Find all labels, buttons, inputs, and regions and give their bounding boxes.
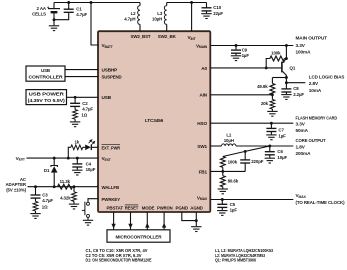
svg-text:10µH: 10µH (152, 16, 162, 21)
node C2 junction (74, 96, 77, 99)
capacitor C6 value label (277, 149, 287, 160)
pushbutton switch S1 (82, 202, 90, 218)
capacitor C2 value label (81, 101, 93, 117)
inductor L2 value label (124, 11, 136, 22)
node D1 top junction (53, 157, 56, 160)
IC U1 LTC3456 body (98, 31, 210, 212)
svg-text:(4.35V TO 5.5V): (4.35V TO 5.5V) (28, 98, 66, 103)
capacitor 220pF (240, 151, 250, 171)
wire SUSPEND (65, 76, 99, 78)
label AC adapter (5, 177, 26, 193)
node Q1 emitter junction on VMAIN (285, 44, 288, 47)
svg-text:USBHP: USBHP (102, 68, 118, 73)
wire battery top rail (54, 2, 140, 4)
node 220pF top junction (244, 150, 247, 153)
svg-text:Q1: Q1 (290, 66, 296, 71)
svg-text:HSO: HSO (197, 121, 207, 126)
svg-text:C10: C10 (213, 5, 221, 10)
wire USB (67, 96, 99, 98)
resistor 4.32k (72, 187, 77, 204)
ground below 20k (267, 111, 277, 116)
svg-text:LCD LOGIC BIAS: LCD LOGIC BIAS (309, 74, 345, 79)
svg-text:L1: L1 (226, 132, 232, 137)
capacitor C1 value label (76, 7, 87, 17)
ground PGND AGND (191, 221, 201, 232)
wire EXT_PWR branch (68, 147, 71, 158)
svg-text:1µF: 1µF (242, 53, 250, 58)
resistor 100k base pullup (266, 56, 286, 68)
capacitor C4 value label (86, 161, 96, 172)
resistor 1ohm below C3 (33, 198, 38, 213)
svg-text:VEXT: VEXT (16, 156, 26, 162)
capacitor C10 22uF (201, 3, 211, 19)
node FB1 junction (221, 170, 224, 173)
svg-text:4.7µF: 4.7µF (42, 198, 53, 203)
capacitor C5 1uF (217, 200, 227, 216)
svg-text:USB: USB (41, 68, 50, 73)
wire collector to divider (272, 77, 286, 79)
svg-text:100k: 100k (228, 160, 238, 165)
svg-text:1k: 1k (74, 139, 79, 144)
resistor R 1ohm below C2 (73, 106, 78, 121)
svg-text:22µF: 22µF (213, 11, 223, 16)
svg-text:VMAX: VMAX (197, 195, 208, 201)
wire VEXT input (27, 157, 99, 159)
svg-text:VBATT: VBATT (102, 43, 114, 49)
svg-text:1Ω: 1Ω (81, 112, 87, 117)
node EXT_PWR branch junction (67, 157, 70, 160)
resistor 1k (71, 145, 83, 150)
wire PBSTAT to microcontroller (111, 212, 115, 230)
node PGND AGND junction (195, 219, 198, 222)
node 4.32k junction (73, 185, 76, 188)
svg-text:49.9k: 49.9k (257, 84, 268, 89)
wire USBHP (65, 69, 99, 71)
capacitor C8 2.2uF (281, 83, 291, 100)
svg-text:C1: C1 (76, 7, 82, 12)
svg-text:VEXT: VEXT (102, 156, 112, 162)
svg-text:C4: C4 (86, 161, 92, 166)
label main output (296, 35, 328, 54)
svg-text:PWRON: PWRON (157, 205, 173, 210)
svg-text:A0: A0 (201, 66, 207, 71)
svg-text:WALLFB: WALLFB (102, 185, 120, 190)
pin EXT_PWR label with overline (102, 145, 121, 151)
battery BT1 2 AA cells (47, 3, 60, 20)
svg-text:PWRKEY: PWRKEY (102, 197, 121, 202)
svg-text:10µF: 10µF (277, 155, 287, 160)
svg-text:1µF: 1µF (230, 208, 238, 213)
svg-text:3.3V: 3.3V (296, 43, 306, 48)
node C9 junction (235, 44, 238, 47)
wire LCD bias output (286, 78, 305, 83)
svg-text:+: + (47, 5, 50, 10)
node C6 junction (268, 145, 271, 148)
ground below C2 chain (70, 122, 80, 127)
svg-text:10µF: 10µF (86, 167, 96, 172)
pin RESET label with overline (125, 205, 139, 210)
node Q1 collector junction (285, 76, 288, 79)
svg-text:2.2µF: 2.2µF (293, 92, 304, 97)
svg-text:C3: C3 (42, 192, 48, 197)
svg-text:USB: USB (102, 95, 112, 100)
svg-text:VMAIN: VMAIN (196, 43, 208, 49)
capacitor C4 10uF (72, 158, 82, 175)
svg-text:SUSPEND: SUSPEND (102, 75, 123, 80)
capacitor C3 4.7uF (31, 187, 41, 198)
svg-text:CELLS: CELLS (32, 11, 46, 16)
svg-text:ADAPTER: ADAPTER (5, 182, 26, 187)
LED D2 (83, 145, 99, 151)
node C5 junction (221, 198, 224, 201)
node C3 junction (34, 185, 37, 188)
svg-text:CONTROLLER: CONTROLLER (29, 75, 64, 80)
diode D1 schottky (51, 158, 58, 187)
node VINT junction (190, 1, 193, 4)
resistor 49.9k (270, 78, 275, 95)
inductor L3 10uH (164, 3, 166, 32)
svg-text:C5: C5 (230, 202, 236, 207)
wire VINT pin drop (191, 3, 193, 32)
svg-text:C8: C8 (293, 86, 299, 91)
wire PGND (182, 212, 197, 221)
label VMAX to real-time clock (296, 193, 345, 205)
resistor 80.6k (220, 171, 225, 188)
svg-text:100mA: 100mA (296, 50, 312, 55)
capacitor C7 1uF (266, 123, 276, 140)
svg-text:D1: ON SEMICONDUCTOR MBRM120E: D1: ON SEMICONDUCTOR MBRM120E (86, 258, 152, 263)
note component table left column (86, 248, 152, 263)
svg-text:CORE OUTPUT: CORE OUTPUT (296, 138, 326, 143)
node C1 top junction (67, 1, 70, 4)
node A0 100k junction (265, 66, 268, 69)
note component table right column (215, 248, 274, 263)
wire PWRON from microcontroller (162, 212, 166, 230)
ground battery (49, 20, 59, 31)
svg-text:LTC3456: LTC3456 (145, 118, 164, 123)
svg-text:4.7µH: 4.7µH (124, 16, 135, 21)
svg-text:10mA: 10mA (309, 88, 322, 93)
node 100k right junction (285, 57, 288, 60)
capacitor C8 value label (293, 86, 304, 97)
svg-text:SW1: SW1 (197, 144, 207, 149)
svg-text:11.3k: 11.3k (60, 179, 71, 184)
svg-text:4.7µF: 4.7µF (82, 107, 93, 112)
wire SW1 (210, 145, 221, 147)
svg-text:4.32k: 4.32k (60, 196, 71, 201)
svg-text:L2: L2 (131, 11, 137, 16)
capacitor C1 4.7uF (54, 3, 74, 20)
box USB power (26, 90, 67, 105)
svg-text:MICROCONTROLLER: MICROCONTROLLER (116, 234, 163, 239)
box microcontroller (107, 230, 170, 242)
capacitor C6 10uF (265, 146, 275, 163)
svg-text:220pF: 220pF (251, 159, 264, 164)
svg-text:3.3V: 3.3V (296, 122, 306, 127)
svg-text:C6: C6 (277, 149, 283, 154)
svg-text:EXT_PWR: EXT_PWR (102, 145, 121, 150)
node C8 junction (285, 81, 288, 84)
wire VINT rail (167, 2, 207, 4)
wire feedback diagonal (223, 146, 270, 157)
ground below 4.32k (69, 204, 79, 209)
resistor 20k (270, 95, 275, 111)
box USB controller (26, 66, 65, 81)
inductor L1 10uH (222, 144, 294, 146)
svg-text:FLASH MEMORY CARD: FLASH MEMORY CARD (296, 115, 338, 120)
svg-text:50mA: 50mA (296, 128, 309, 133)
label core output (296, 138, 326, 156)
svg-text:2.8V: 2.8V (309, 81, 319, 86)
svg-text:(TO REAL-TIME CLOCK): (TO REAL-TIME CLOCK) (296, 200, 345, 205)
svg-text:SW2_BST: SW2_BST (131, 34, 151, 39)
node VBATT branch junction (90, 1, 93, 4)
inductor L3 value label (152, 11, 163, 22)
node C7 junction (270, 122, 273, 125)
ground below pushbutton (83, 217, 93, 225)
LED emission arrows (89, 140, 95, 145)
wire HSO output (210, 122, 293, 124)
svg-text:80.6k: 80.6k (228, 179, 239, 184)
ground below 80.6k (218, 189, 228, 194)
svg-text:C2: C2 (82, 101, 88, 106)
battery label 2 AA CELLS (32, 6, 47, 17)
svg-text:100k: 100k (271, 50, 281, 55)
capacitor C3 value label (42, 192, 54, 209)
capacitor C2 4.7uF (70, 97, 80, 106)
svg-text:MAIN OUTPUT: MAIN OUTPUT (296, 35, 328, 40)
box USB controller label (29, 68, 64, 80)
wire FB1 (210, 170, 245, 172)
svg-text:VMAX: VMAX (296, 193, 307, 199)
capacitor C10 value label (213, 5, 223, 16)
resistor 11.3k (58, 184, 73, 189)
svg-text:FB1: FB1 (199, 169, 208, 174)
svg-text:VINT: VINT (188, 35, 197, 41)
svg-text:D1: D1 (44, 168, 50, 173)
wire AGND (195, 212, 197, 221)
svg-text:USB POWER: USB POWER (29, 92, 65, 97)
svg-text:2 AA: 2 AA (37, 6, 47, 11)
node D1 bottom junction (53, 185, 56, 188)
svg-text:AIN: AIN (199, 93, 207, 98)
svg-text:Q1: PHILIPS MMBT3906: Q1: PHILIPS MMBT3906 (215, 258, 257, 263)
svg-text:20k: 20k (261, 101, 269, 106)
node C4 junction (76, 157, 79, 160)
box USB power label (28, 92, 66, 103)
wire RESET to microcontroller (128, 212, 132, 230)
svg-text:10µH: 10µH (224, 138, 234, 143)
transistor Q1 PNP (282, 59, 287, 78)
svg-text:PBSTAT: PBSTAT (107, 205, 124, 210)
svg-text:PGND: PGND (176, 205, 189, 210)
svg-text:4.7µF: 4.7µF (76, 12, 87, 17)
node battery minus junction (53, 18, 56, 21)
svg-text:1.8V: 1.8V (296, 144, 306, 149)
label flash memory card (296, 115, 338, 133)
inductor L1 value label (224, 132, 234, 143)
svg-text:SW2_BK: SW2_BK (158, 34, 177, 39)
wire Q1 emitter stub (285, 46, 287, 59)
wire AC adapter input (28, 186, 99, 188)
svg-text:RESET: RESET (125, 205, 139, 210)
wire to VBATT pin (91, 3, 99, 46)
svg-text:200mA: 200mA (296, 151, 312, 156)
capacitor C9 1uF (231, 46, 241, 61)
svg-text:1Ω: 1Ω (42, 204, 48, 209)
svg-text:MODE: MODE (142, 205, 155, 210)
wire MODE from microcontroller (145, 212, 149, 230)
capacitor C5 value label (230, 202, 238, 213)
svg-text:L3: L3 (157, 11, 163, 16)
capacitor C9 value label (242, 48, 250, 59)
svg-text:AGND: AGND (190, 205, 203, 210)
wire VMAIN output (210, 45, 293, 47)
inductor L2 4.7uH (138, 3, 140, 32)
wire PWRKEY (88, 199, 99, 203)
label LCD logic bias (309, 74, 345, 92)
node AIN divider junction (271, 93, 274, 96)
svg-text:1µF: 1µF (278, 134, 286, 139)
svg-text:(5V ±10%): (5V ±10%) (6, 187, 26, 192)
wire VMAX output (210, 199, 293, 201)
ground below C3 chain (30, 214, 40, 219)
svg-text:C9: C9 (242, 48, 248, 53)
wire AIN (210, 94, 272, 96)
resistor 100k feedback (220, 157, 225, 172)
wire A0 (210, 67, 281, 69)
svg-text:C7: C7 (278, 128, 284, 133)
capacitor C7 value label (278, 128, 286, 139)
